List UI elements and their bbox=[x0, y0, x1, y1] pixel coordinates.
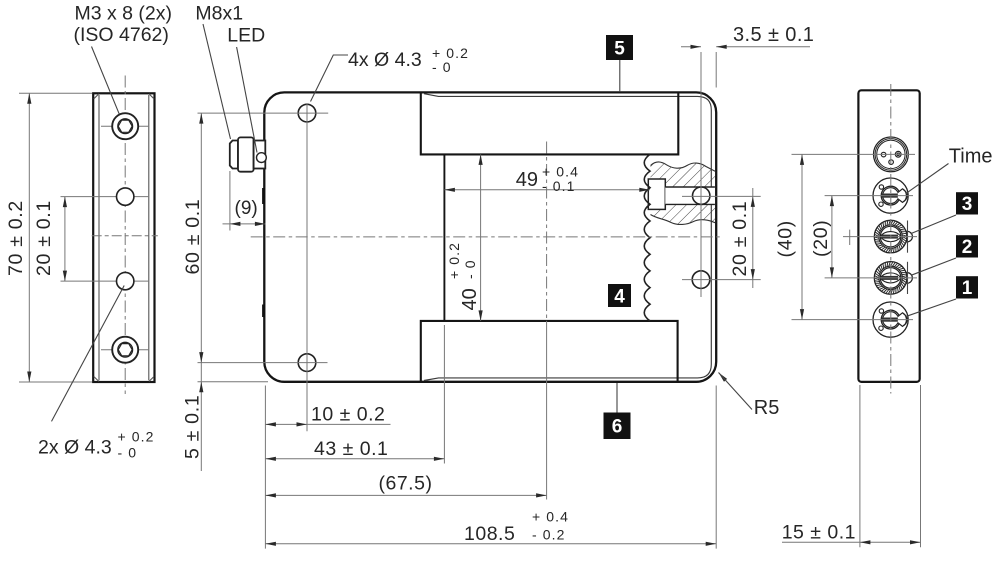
svg-text:Time: Time bbox=[949, 145, 993, 167]
dimension 60 ± 0.1 / 5 ± 0.1 line bbox=[200, 113, 202, 471]
svg-text:2: 2 bbox=[962, 237, 973, 258]
svg-text:- 0: - 0 bbox=[118, 445, 138, 461]
dimension 49 +0.4/-0.1 bbox=[444, 189, 649, 191]
svg-text:20 ± 0.1: 20 ± 0.1 bbox=[33, 200, 55, 276]
svg-text:6: 6 bbox=[612, 417, 623, 438]
svg-text:(20): (20) bbox=[810, 220, 832, 257]
dimension 40 +0.2/-0 bbox=[480, 154, 482, 321]
plate corner chamfers bbox=[94, 94, 99, 99]
label square 6 with leader bbox=[616, 383, 618, 413]
knurled potentiometer bbox=[874, 220, 907, 253]
svg-text:(ISO 4762): (ISO 4762) bbox=[74, 24, 169, 46]
main horizontal centerline bbox=[251, 236, 721, 238]
svg-text:108.5: 108.5 bbox=[464, 523, 515, 545]
svg-text:3: 3 bbox=[962, 194, 973, 215]
leader 2x Ø4.3 to plate hole bbox=[52, 286, 125, 422]
dimension (20) right view bbox=[831, 196, 833, 278]
dimension 20 ± 0.1 right bbox=[752, 188, 754, 288]
break-out freehand boundary top bbox=[651, 162, 716, 171]
plate hole 2 (Ø4.3) bbox=[61, 196, 150, 198]
dimension (40) right view bbox=[801, 154, 803, 319]
svg-text:- 0: - 0 bbox=[462, 259, 478, 279]
M8 connector nut bbox=[238, 137, 254, 171]
dimension 10 ± 0.2 bbox=[265, 423, 390, 425]
svg-text:40: 40 bbox=[459, 288, 481, 310]
svg-text:4: 4 bbox=[614, 286, 625, 307]
svg-text:70 ± 0.2: 70 ± 0.2 bbox=[5, 200, 27, 276]
dimension 3.5 ± 0.1 bbox=[681, 46, 701, 48]
svg-text:(40): (40) bbox=[775, 220, 797, 257]
dimension 70 ± 0.2 bbox=[19, 92, 92, 94]
M3 screw hole top (ISO 4762 socket head) bbox=[101, 125, 149, 127]
svg-text:5: 5 bbox=[614, 38, 625, 59]
svg-text:- 0: - 0 bbox=[432, 59, 452, 75]
plate horizontal center mark bbox=[92, 235, 158, 237]
mounting hole bottom-left (Ø4.3) bbox=[298, 354, 316, 372]
svg-text:49: 49 bbox=[516, 169, 538, 191]
side detent circle bbox=[902, 231, 913, 242]
dimension (9) connector bbox=[229, 171, 231, 231]
dimension (67.5) bbox=[265, 494, 546, 496]
knurled potentiometer bbox=[874, 262, 907, 295]
svg-text:R5: R5 bbox=[754, 397, 780, 419]
svg-text:+ 0.2: + 0.2 bbox=[118, 429, 155, 445]
svg-text:20 ± 0.1: 20 ± 0.1 bbox=[729, 201, 751, 277]
dimension 20 ± 0.1 (plate holes) bbox=[64, 197, 66, 282]
R5 corner leader bbox=[719, 373, 728, 382]
Time potentiometer bbox=[873, 178, 908, 213]
label square 5 with leader bbox=[619, 60, 621, 91]
label square 4 bbox=[608, 284, 631, 307]
mounting hole top-left (Ø4.3) bbox=[298, 104, 316, 122]
extension lines main view bbox=[198, 112, 329, 114]
indicator 1 bbox=[873, 302, 908, 337]
dimension 108.5 +0.4/-0.2 bbox=[265, 543, 716, 545]
left view: mounting plate outline bbox=[93, 93, 154, 382]
housing chamfer contour line bbox=[424, 94, 711, 381]
mounting hole bottom-right (Ø4.3) bbox=[692, 271, 710, 289]
svg-text:(67.5): (67.5) bbox=[379, 473, 433, 495]
main view: housing body rounded rectangle bbox=[264, 92, 716, 381]
svg-text:+ 0.2: + 0.2 bbox=[446, 242, 462, 279]
section drill channel bbox=[665, 187, 715, 204]
leader 4x Ø4.3 to hole bbox=[311, 55, 349, 102]
plate hole 3 (Ø4.3) bbox=[61, 280, 150, 282]
svg-text:- 0.1: - 0.1 bbox=[542, 178, 576, 194]
M3 screw hole bottom bbox=[101, 349, 149, 351]
M8 connector tip bbox=[230, 141, 238, 169]
opening vertical centerline bbox=[546, 142, 548, 321]
M8 connector face bbox=[874, 137, 909, 172]
svg-text:60 ± 0.1: 60 ± 0.1 bbox=[182, 199, 204, 275]
section hole circle bbox=[693, 187, 710, 204]
right view centerline bbox=[890, 84, 892, 394]
opening left inner edge bbox=[443, 154, 445, 321]
svg-text:43 ± 0.1: 43 ± 0.1 bbox=[314, 438, 388, 460]
M8 connector flange bbox=[254, 141, 266, 169]
right view: side plate bbox=[858, 90, 919, 382]
wavy break line bbox=[644, 154, 650, 321]
leader M3 screw bbox=[92, 47, 120, 115]
LED dot bbox=[257, 153, 267, 163]
dimension 43 ± 0.1 bbox=[265, 458, 444, 460]
label square 1 with leader bbox=[905, 299, 956, 317]
side detent circle bbox=[902, 273, 913, 284]
svg-text:5 ± 0.1: 5 ± 0.1 bbox=[182, 395, 204, 459]
potentiometer slot + wedge bbox=[882, 318, 898, 322]
svg-text:1: 1 bbox=[962, 278, 973, 299]
break-out freehand boundary bottom bbox=[651, 215, 716, 225]
potentiometer slot + wedge bbox=[882, 194, 898, 198]
svg-text:4x Ø 4.3: 4x Ø 4.3 bbox=[348, 49, 422, 71]
svg-text:(9): (9) bbox=[235, 198, 258, 219]
svg-text:10 ± 0.2: 10 ± 0.2 bbox=[311, 403, 385, 425]
section slot recess bbox=[648, 179, 665, 209]
svg-text:+ 0.4: + 0.4 bbox=[532, 509, 569, 525]
svg-text:3.5 ± 0.1: 3.5 ± 0.1 bbox=[733, 24, 814, 46]
label square 3 with leader bbox=[911, 215, 957, 234]
svg-text:LED: LED bbox=[227, 25, 265, 47]
edge tick marks on left edge bbox=[262, 188, 265, 204]
right view extension lines bbox=[792, 153, 916, 155]
plate vertical centerline bbox=[124, 76, 126, 395]
svg-text:M3 x 8 (2x): M3 x 8 (2x) bbox=[75, 2, 173, 24]
plate inner edge lines bbox=[98, 95, 100, 380]
dimension 15 ± 0.1 bbox=[859, 385, 861, 547]
svg-text:2x Ø 4.3: 2x Ø 4.3 bbox=[38, 437, 112, 459]
svg-text:- 0.2: - 0.2 bbox=[532, 527, 566, 543]
bottom cover strip bbox=[421, 321, 678, 382]
svg-text:M8x1: M8x1 bbox=[195, 2, 243, 24]
svg-text:15 ± 0.1: 15 ± 0.1 bbox=[782, 522, 856, 544]
top cover strip bbox=[421, 93, 679, 155]
label square 2 with leader bbox=[911, 258, 956, 275]
